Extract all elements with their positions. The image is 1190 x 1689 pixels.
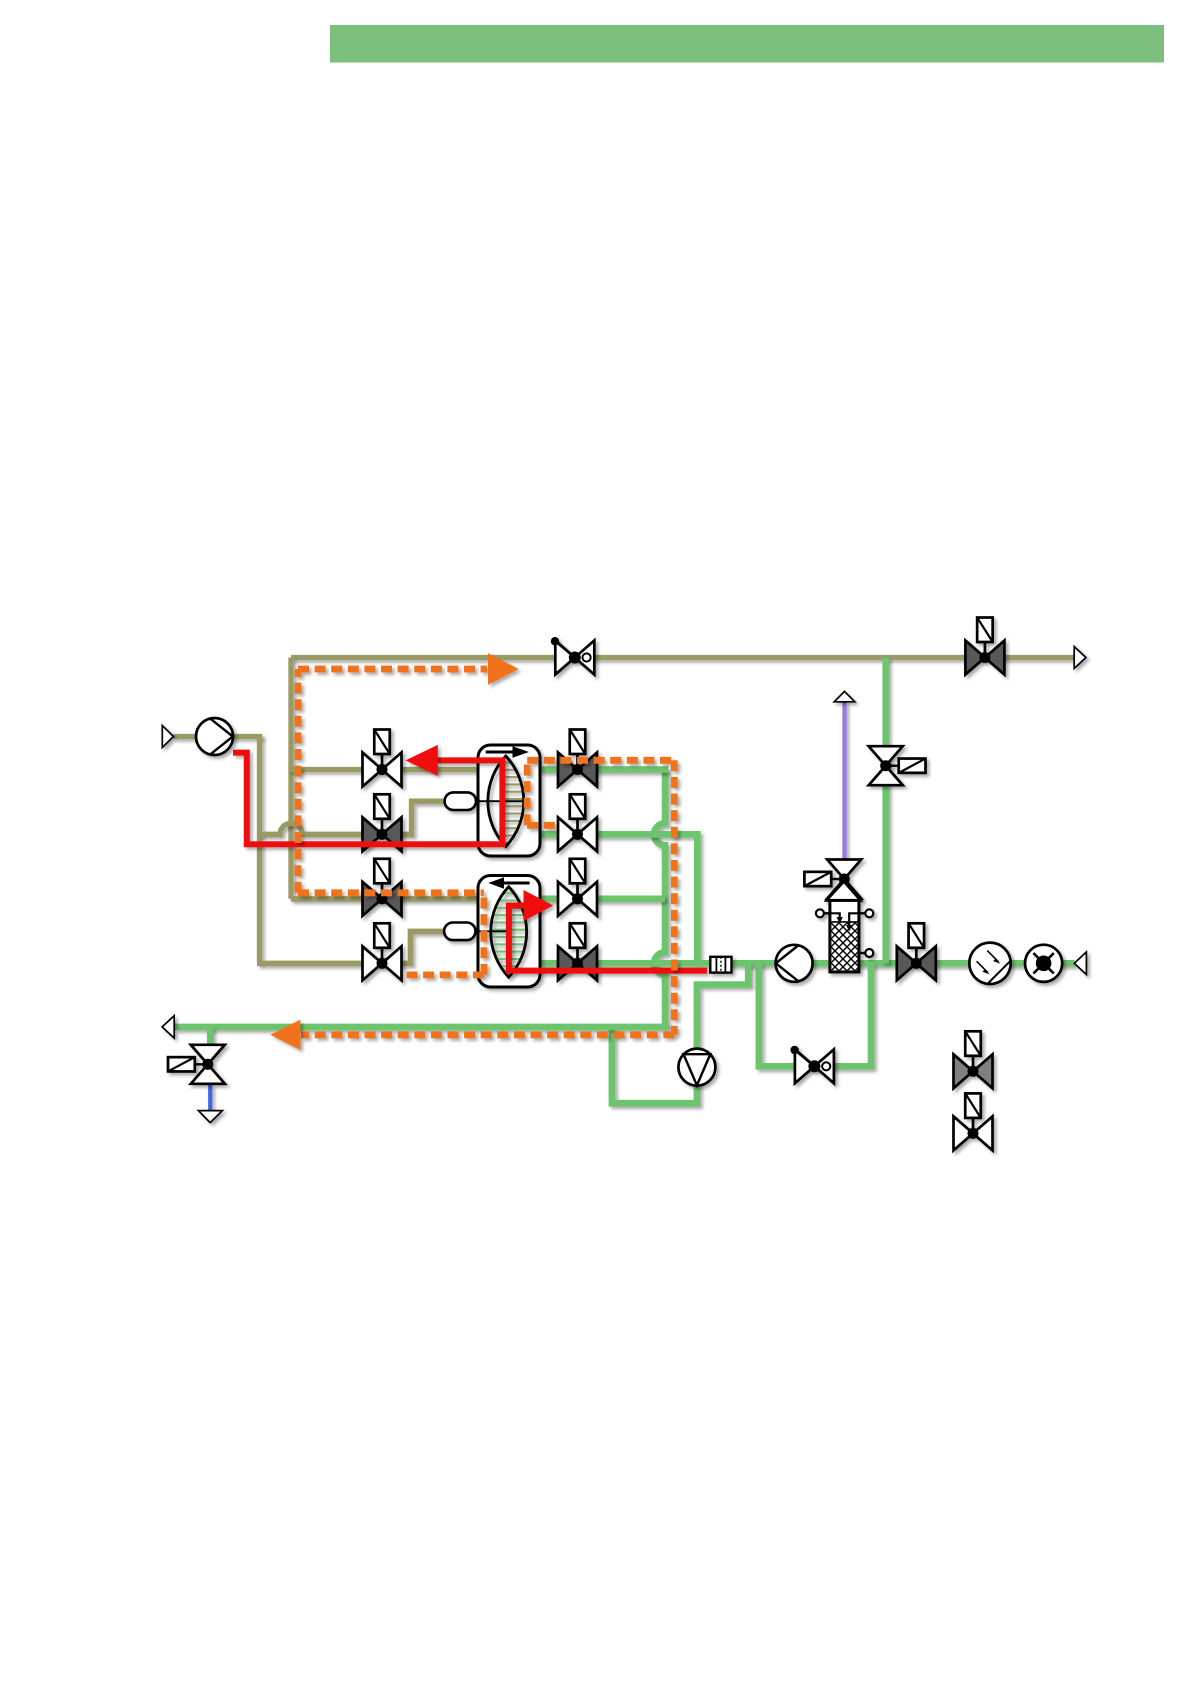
valve V-L4 (open) bbox=[363, 923, 402, 980]
port: header outlet bbox=[1074, 647, 1086, 669]
vessel C1 (adsorber column 1) with direction arrow bbox=[478, 745, 540, 856]
piston feed C2 bbox=[444, 923, 509, 941]
flow path red: vessel C2 to main line bbox=[509, 906, 707, 971]
flow arrow orange: top bbox=[488, 653, 519, 685]
flow arrow orange: bottom bbox=[270, 1020, 300, 1050]
valve V-R4 (closed) bbox=[558, 923, 597, 980]
port: purple vent bbox=[834, 691, 855, 701]
flow path orange dashed: regeneration route B bbox=[301, 760, 674, 1035]
vessel C2 (adsorber column 2) with direction arrow bbox=[478, 876, 540, 988]
legend valve closed bbox=[954, 1031, 993, 1088]
inline element (flame arrestor) bbox=[710, 957, 731, 973]
filter column F1 bbox=[790, 882, 928, 972]
pipe: olive riser x291 bbox=[288, 658, 293, 899]
pipe: green row2 drop bbox=[539, 834, 697, 963]
port: blue drain bbox=[198, 1111, 222, 1123]
pipe: olive pump inlet bbox=[174, 734, 263, 739]
flow arrow red: into vessel C2 outlet bbox=[524, 890, 554, 921]
valve V-L2 (closed) bbox=[363, 794, 402, 851]
pipe: olive pump drop x259.5 bbox=[257, 737, 262, 964]
valve above filter bbox=[804, 860, 861, 899]
instrument: fan sensor bbox=[1025, 945, 1062, 982]
valve V-L3 (closed) bbox=[363, 859, 402, 916]
flow path orange dashed: regeneration route A bbox=[298, 669, 487, 975]
pump P1 (feed pump) bbox=[196, 718, 233, 755]
instrument: flow sensor bbox=[969, 943, 1010, 984]
port: bottom return outlet bbox=[162, 1016, 174, 1038]
pipe: green main line bbox=[539, 960, 1075, 967]
hand valve on bypass bbox=[790, 1046, 834, 1084]
valve on header outlet (closed) bbox=[965, 618, 1004, 675]
pipe: olive row2 with hop over riser bbox=[260, 801, 445, 834]
pipe: blue drain line bbox=[208, 1085, 212, 1112]
flow path red: pump to vessel C1 bbox=[233, 753, 502, 845]
blower P3 bbox=[678, 1049, 715, 1086]
port: main line inlet bbox=[1074, 952, 1086, 975]
port: inlet to pump P1 bbox=[162, 726, 173, 748]
pipe: green row3 stub bbox=[539, 895, 665, 902]
pipe: olive header line to outlet bbox=[291, 655, 1075, 660]
header bar bbox=[330, 25, 1164, 63]
pipe: green bottom return line bbox=[175, 1024, 669, 1031]
vessel C2 packing lens with green hatch bbox=[483, 887, 533, 978]
valve V-R2 (open) bbox=[558, 794, 597, 851]
pipe: purple vent line bbox=[842, 702, 846, 862]
valve on right riser bbox=[869, 746, 926, 785]
pipe: olive row4 to piston C2 bbox=[257, 931, 444, 963]
pipe: green blower branch bbox=[612, 963, 748, 1103]
vessel C1 packing lens with olive hatch bbox=[488, 756, 530, 847]
flow arrow red: out of vessel C1 bbox=[406, 745, 438, 776]
valve V-R3 (open) bbox=[558, 859, 597, 916]
legend valve open bbox=[954, 1093, 993, 1150]
valve V-R1 (closed) bbox=[558, 730, 597, 787]
pipe: olive branch to valve L1 bbox=[288, 767, 478, 772]
pipe: green drain stub bbox=[207, 1027, 214, 1048]
pipe: green manifold vertical with hops bbox=[654, 770, 665, 1027]
pipe: green right riser bbox=[882, 658, 889, 964]
pump P2 on main line bbox=[776, 945, 813, 982]
valve on drain bbox=[168, 1045, 225, 1084]
pipe: green bypass loop with hand valve bbox=[759, 963, 871, 1066]
pipe: green row1 from vessel C1 bbox=[539, 766, 668, 773]
hand valve on header line bbox=[551, 637, 595, 675]
valve V-L1 (open) bbox=[363, 730, 402, 787]
piston feed C1 bbox=[445, 792, 524, 810]
pipe: olive row3 to vessel C2 bbox=[291, 896, 478, 901]
valve on main line (closed) bbox=[897, 923, 936, 980]
